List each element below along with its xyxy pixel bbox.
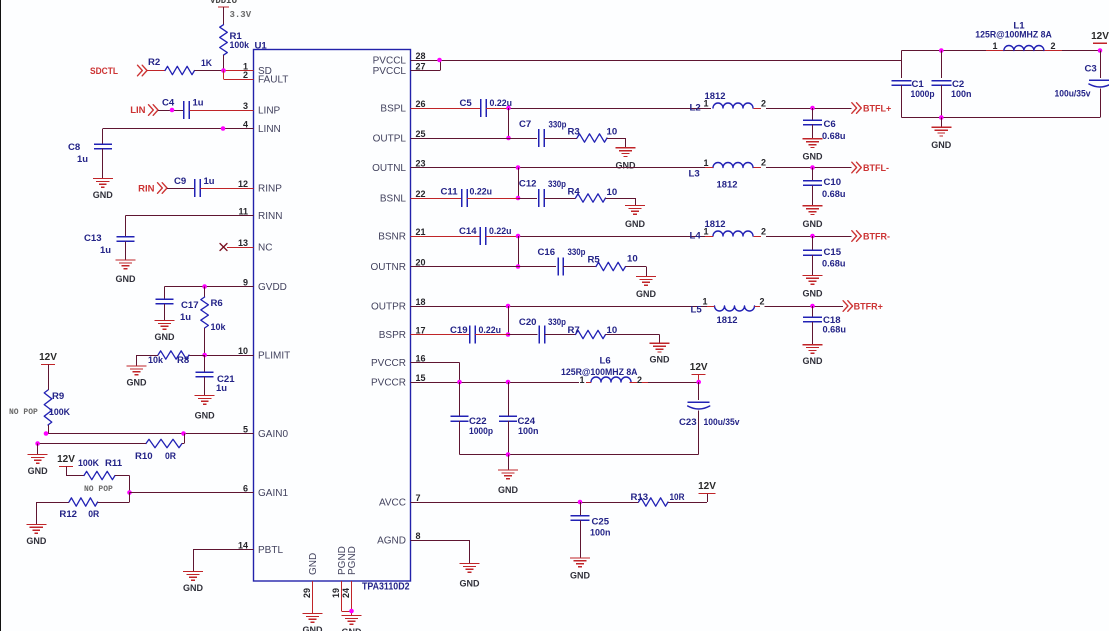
svg-text:GND: GND bbox=[803, 356, 824, 366]
svg-text:C13: C13 bbox=[84, 233, 102, 244]
wire bootstrap bbox=[518, 168, 520, 199]
ground bbox=[93, 179, 114, 201]
wire pin 9 (GVDD) to C17 bbox=[165, 286, 254, 288]
svg-text:1u: 1u bbox=[180, 312, 191, 323]
svg-text:C5: C5 bbox=[460, 98, 473, 109]
junction R10 GAIN0 bbox=[181, 431, 186, 436]
svg-text:L6: L6 bbox=[600, 356, 611, 367]
svg-text:7: 7 bbox=[416, 493, 421, 503]
capacitor C4 1u bbox=[162, 98, 204, 120]
resistor R13 10R bbox=[631, 492, 685, 506]
junction LINN bbox=[221, 126, 226, 131]
wire pin 18 to L5 bbox=[411, 306, 713, 308]
svg-text:R9: R9 bbox=[52, 391, 64, 402]
capacitor C19 0.22u bbox=[450, 325, 501, 344]
svg-text:10k: 10k bbox=[148, 355, 164, 366]
junction PVCCL bbox=[437, 58, 442, 63]
capacitor C2 100n bbox=[931, 51, 971, 118]
ground bbox=[26, 524, 47, 546]
junction BSPL bbox=[506, 106, 511, 111]
wire C25 to ground bbox=[580, 520, 582, 558]
wire pin 23 to L3 bbox=[411, 167, 712, 169]
U1 pin 12 (RINP) bbox=[231, 179, 283, 195]
svg-text:GND: GND bbox=[570, 570, 591, 580]
wire pin 20 to junction bbox=[411, 266, 519, 268]
wire BTFR+ to C18 bbox=[812, 306, 814, 317]
ground bbox=[155, 321, 176, 343]
svg-text:GND: GND bbox=[803, 219, 824, 229]
wire pin 29 to ground bbox=[312, 581, 314, 614]
wire C21 to ground bbox=[204, 377, 206, 396]
wire C5 dot to L2 bbox=[509, 108, 712, 110]
svg-text:12V: 12V bbox=[690, 362, 708, 373]
wire pin 17 to C19 bbox=[411, 334, 471, 336]
capacitor C21 1u bbox=[196, 372, 236, 394]
svg-text:100n: 100n bbox=[951, 89, 972, 100]
inductor L6 125R@100MHZ 8A bbox=[561, 356, 648, 386]
resistor R9 100K bbox=[9, 390, 70, 425]
wire C17 to ground bbox=[164, 304, 166, 321]
power 12V bbox=[1091, 31, 1109, 53]
svg-text:1u: 1u bbox=[100, 245, 111, 256]
svg-text:1u: 1u bbox=[77, 154, 88, 165]
junction SD node bbox=[221, 68, 226, 73]
svg-text:L2: L2 bbox=[690, 103, 701, 114]
svg-text:12V: 12V bbox=[1091, 31, 1109, 42]
svg-text:1: 1 bbox=[702, 297, 707, 307]
svg-text:1000p: 1000p bbox=[911, 89, 935, 100]
svg-text:R11: R11 bbox=[105, 458, 123, 469]
U1 pin 4 (LINN) bbox=[231, 120, 281, 136]
svg-text:C20: C20 bbox=[519, 317, 537, 328]
junction R10 ground node bbox=[35, 441, 40, 446]
wire R10 left to ground node bbox=[38, 443, 69, 445]
wire LINN down to C8 bbox=[102, 129, 104, 145]
svg-text:GND: GND bbox=[127, 378, 148, 388]
junction C2 top bbox=[939, 48, 944, 53]
svg-text:BTFR-: BTFR- bbox=[863, 232, 890, 242]
junction LIN bbox=[170, 108, 175, 113]
svg-text:3: 3 bbox=[243, 101, 248, 111]
junction GAIN1 bbox=[127, 490, 132, 495]
svg-text:330p: 330p bbox=[548, 317, 566, 328]
svg-text:AGND: AGND bbox=[377, 536, 406, 547]
wire pin 19 to ground bbox=[342, 581, 352, 612]
node RIN bbox=[138, 183, 167, 195]
svg-text:0.68u: 0.68u bbox=[822, 189, 846, 200]
svg-text:1u: 1u bbox=[204, 176, 215, 187]
ground bbox=[803, 206, 824, 229]
svg-text:GND: GND bbox=[498, 485, 519, 495]
svg-text:GND: GND bbox=[636, 289, 657, 299]
svg-text:1812: 1812 bbox=[717, 315, 738, 326]
capacitor C10 0.68u bbox=[803, 177, 846, 200]
wire BTFR- to C15 bbox=[812, 236, 814, 250]
junction BTFR+ bbox=[810, 304, 815, 309]
wire BTFL+ to C6 bbox=[812, 108, 814, 120]
wire ground node down bbox=[37, 444, 39, 455]
power 12V bbox=[698, 481, 716, 494]
svg-text:GND: GND bbox=[93, 190, 114, 200]
wire L3 to BTFL- bbox=[766, 167, 852, 169]
ground bbox=[342, 616, 363, 631]
svg-text:C12: C12 bbox=[519, 179, 537, 190]
node BTFL+ bbox=[852, 103, 891, 114]
wire C18 to ground bbox=[812, 322, 814, 345]
svg-text:26: 26 bbox=[416, 99, 426, 109]
svg-text:PVCCR: PVCCR bbox=[371, 378, 406, 389]
ground bbox=[460, 564, 481, 589]
svg-text:GND: GND bbox=[625, 219, 646, 229]
junction OUTPL bbox=[506, 136, 511, 141]
svg-text:10R: 10R bbox=[670, 492, 685, 503]
resistor R7 10 bbox=[568, 325, 618, 339]
resistor R11 100K bbox=[78, 458, 123, 494]
junction OUTNR bbox=[516, 264, 521, 269]
wire L6 to 12V bbox=[648, 382, 699, 384]
wire bootstrap bbox=[508, 306, 510, 335]
svg-text:C15: C15 bbox=[824, 247, 842, 258]
capacitor C20 330p bbox=[519, 317, 566, 344]
wire R1 to SD node bbox=[223, 55, 225, 70]
svg-text:1000p: 1000p bbox=[469, 426, 493, 437]
resistor R8 10k bbox=[148, 351, 190, 366]
junction OUTPR bbox=[506, 304, 511, 309]
svg-text:2: 2 bbox=[759, 297, 764, 307]
wire LIN to C4 bbox=[158, 110, 184, 112]
ground bbox=[303, 614, 324, 631]
svg-text:BSNR: BSNR bbox=[378, 232, 406, 243]
wire R3 to ground bbox=[607, 138, 626, 148]
capacitor C14 0.22u bbox=[459, 226, 512, 245]
wire junction to C12 bbox=[518, 198, 537, 200]
svg-text:GND: GND bbox=[460, 579, 481, 589]
svg-text:100u/35v: 100u/35v bbox=[1055, 89, 1092, 100]
svg-text:PLIMIT: PLIMIT bbox=[258, 351, 290, 362]
svg-text:BSNL: BSNL bbox=[380, 194, 407, 205]
resistor R3 10 bbox=[568, 127, 618, 143]
U1 pin 1 (SD) bbox=[231, 62, 272, 78]
svg-text:10k: 10k bbox=[211, 322, 227, 333]
svg-text:0.22u: 0.22u bbox=[470, 187, 493, 198]
ground bbox=[28, 455, 49, 477]
wire C15 to ground bbox=[812, 255, 814, 275]
svg-text:3.3V: 3.3V bbox=[230, 10, 252, 20]
wire C11 to junction bbox=[467, 198, 518, 200]
wire bootstrap L bbox=[508, 108, 510, 138]
svg-text:GND: GND bbox=[183, 583, 204, 593]
svg-text:C7: C7 bbox=[519, 119, 531, 130]
svg-text:AVCC: AVCC bbox=[379, 498, 406, 509]
junction BSNL bbox=[516, 196, 521, 201]
capacitor C23 100u/35v bbox=[679, 382, 740, 455]
junction PVCCR gnd bbox=[506, 452, 511, 457]
capacitor C8 1u bbox=[68, 142, 112, 165]
ground bbox=[803, 139, 824, 162]
capacitor C25 100n bbox=[571, 516, 611, 539]
wire R5 to ground bbox=[626, 267, 647, 277]
U1 pin 28 (PVCCL) bbox=[373, 51, 434, 67]
svg-text:125R@100MHZ 8A: 125R@100MHZ 8A bbox=[561, 367, 638, 377]
svg-text:OUTNL: OUTNL bbox=[372, 163, 406, 174]
svg-text:12V: 12V bbox=[39, 352, 57, 363]
capacitor C12 330p bbox=[519, 179, 566, 208]
inductor L2 1812 bbox=[690, 91, 767, 114]
wire GAIN1 to pin 6 bbox=[130, 492, 254, 494]
svg-text:19: 19 bbox=[331, 588, 341, 598]
svg-text:0.68u: 0.68u bbox=[823, 325, 847, 336]
svg-text:BTFR+: BTFR+ bbox=[854, 302, 883, 312]
svg-text:1u: 1u bbox=[216, 383, 227, 394]
svg-text:125R@100MHZ 8A: 125R@100MHZ 8A bbox=[975, 29, 1052, 39]
junction BTFL- bbox=[810, 165, 815, 170]
IC U1 TPA3110D2 body bbox=[254, 41, 411, 593]
ground bbox=[625, 206, 646, 230]
wire R13 to 12V bbox=[668, 494, 708, 503]
svg-text:GND: GND bbox=[650, 354, 671, 364]
svg-text:R4: R4 bbox=[568, 187, 581, 198]
svg-text:13: 13 bbox=[238, 238, 248, 248]
svg-text:C11: C11 bbox=[441, 187, 459, 198]
svg-text:0R: 0R bbox=[165, 451, 176, 462]
ground bbox=[127, 366, 148, 388]
junction bottom rail bbox=[939, 115, 944, 120]
svg-text:10: 10 bbox=[238, 346, 248, 356]
junction BTFL+ bbox=[810, 106, 815, 111]
inductor L1 125R@100MHZ 8A bbox=[975, 21, 1062, 52]
U1 pin 29 (GND) bbox=[302, 553, 319, 598]
svg-text:PVCCL: PVCCL bbox=[373, 66, 407, 77]
svg-text:R12: R12 bbox=[59, 509, 77, 520]
svg-text:C16: C16 bbox=[538, 247, 556, 258]
wire R12 to ground bbox=[36, 502, 69, 524]
U1 pin 26 (BSPL) bbox=[380, 99, 433, 115]
svg-text:C8: C8 bbox=[68, 142, 81, 153]
capacitor C7 330p bbox=[519, 119, 567, 147]
ground bbox=[183, 572, 204, 594]
wire pin 25 to junction bbox=[411, 138, 509, 140]
wire PVCCL bottom rail bbox=[902, 117, 1101, 119]
svg-text:0.68u: 0.68u bbox=[822, 259, 846, 270]
wire L4 to BTFR- bbox=[766, 236, 852, 238]
wire GVDD down to C17 bbox=[164, 287, 166, 300]
wire pin 7 (AVCC) bbox=[411, 502, 639, 504]
junction AVCC bbox=[578, 500, 583, 505]
svg-text:C17: C17 bbox=[181, 300, 199, 311]
ground bbox=[803, 345, 824, 367]
wire C20 to R7 bbox=[545, 334, 576, 336]
svg-text:LINP: LINP bbox=[258, 106, 281, 117]
svg-text:R10: R10 bbox=[135, 451, 153, 462]
wire C12 to R4 bbox=[544, 198, 576, 200]
svg-text:PVCCR: PVCCR bbox=[371, 358, 406, 369]
svg-text:330p: 330p bbox=[549, 120, 567, 131]
wire RIN to C9 bbox=[167, 188, 195, 190]
U1 pin 17 (BSPR) bbox=[379, 326, 434, 342]
wire R8 to ground bbox=[137, 355, 159, 366]
U1 pin 6 (GAIN1) bbox=[231, 484, 289, 500]
svg-text:100K: 100K bbox=[49, 407, 70, 418]
capacitor C24 100n bbox=[499, 382, 539, 455]
wire C10 to ground bbox=[812, 185, 814, 206]
svg-text:GAIN0: GAIN0 bbox=[258, 429, 288, 440]
wire C19 to junction bbox=[475, 334, 508, 336]
U1 pin 18 (OUTPR) bbox=[371, 297, 434, 313]
wire R10 left lead bbox=[69, 443, 146, 445]
ground bbox=[931, 127, 952, 150]
svg-text:10: 10 bbox=[607, 127, 618, 138]
junction PVCCR 12V bbox=[696, 380, 701, 385]
U1 pin 5 (GAIN0) bbox=[231, 425, 289, 441]
svg-text:R6: R6 bbox=[211, 298, 223, 309]
ground bbox=[616, 148, 637, 171]
svg-text:28: 28 bbox=[416, 51, 426, 61]
svg-text:2: 2 bbox=[1050, 41, 1055, 51]
svg-text:RINN: RINN bbox=[258, 211, 282, 222]
junction OUTNL bbox=[516, 165, 521, 170]
wire C14 dot to L4 bbox=[518, 236, 711, 238]
svg-text:1812: 1812 bbox=[717, 180, 738, 191]
svg-text:GND: GND bbox=[342, 627, 363, 631]
svg-text:2: 2 bbox=[761, 158, 766, 168]
wire PLIMIT to R8 bbox=[189, 355, 205, 357]
svg-text:2: 2 bbox=[243, 70, 248, 80]
U1 pin 2 (FAULT) bbox=[231, 70, 289, 86]
junction PVCCR C22 bbox=[457, 380, 462, 385]
U1 pin 9 (GVDD) bbox=[231, 278, 287, 294]
wire L2 to BTFL+ bbox=[766, 108, 852, 110]
junction GVDD bbox=[202, 284, 207, 289]
U1 pin 19 (PGND) bbox=[331, 546, 348, 598]
svg-text:1: 1 bbox=[579, 375, 584, 385]
wire C14 to dot bbox=[485, 236, 518, 238]
U1 pin 7 (AVCC) bbox=[379, 493, 434, 509]
svg-text:100u/35v: 100u/35v bbox=[704, 417, 741, 428]
svg-text:RIN: RIN bbox=[138, 184, 155, 195]
wire SD node to pin 2 (FAULT) bbox=[224, 71, 254, 80]
wire 12V to R11 bbox=[66, 467, 84, 476]
node SDCTL bbox=[90, 65, 147, 77]
svg-text:GND: GND bbox=[931, 140, 952, 150]
wire C4 to pin 3 bbox=[190, 110, 254, 112]
svg-text:BSPR: BSPR bbox=[379, 330, 406, 341]
svg-text:C25: C25 bbox=[592, 517, 610, 528]
svg-text:GND: GND bbox=[803, 151, 824, 161]
wire R11 to GAIN1 bbox=[115, 476, 130, 493]
svg-text:15: 15 bbox=[416, 373, 426, 383]
junction R9 GAIN0 bbox=[44, 431, 49, 436]
wire BTFL- to C10 bbox=[812, 168, 814, 181]
wire pin 14 (PBTL) to ground bbox=[193, 550, 254, 572]
inductor L3 1812 bbox=[689, 158, 767, 191]
junction BSNR bbox=[516, 234, 521, 239]
junction PVCCR C24 bbox=[506, 380, 511, 385]
wire SDCTL to R2 bbox=[147, 70, 165, 72]
svg-text:24: 24 bbox=[341, 588, 351, 598]
svg-text:GND: GND bbox=[116, 274, 137, 284]
capacitor C1 1000p bbox=[892, 60, 935, 118]
wire R7 to ground bbox=[606, 335, 660, 344]
svg-text:C14: C14 bbox=[459, 226, 477, 237]
svg-text:1u: 1u bbox=[193, 98, 204, 109]
wire pin 24 to ground bbox=[351, 581, 353, 616]
wire VDDIO to R1 bbox=[223, 7, 225, 25]
svg-text:R5: R5 bbox=[588, 255, 601, 266]
power 12V bbox=[690, 362, 708, 382]
junction PLIMIT bbox=[202, 353, 207, 358]
wire R4 to ground bbox=[606, 198, 636, 206]
capacitor C16 330p bbox=[538, 247, 586, 276]
U1 pin 27 (PVCCL) bbox=[373, 62, 434, 78]
svg-text:29: 29 bbox=[302, 588, 312, 598]
power 12V bbox=[57, 454, 75, 467]
svg-text:GND: GND bbox=[28, 466, 49, 476]
svg-text:R7: R7 bbox=[568, 325, 580, 336]
svg-text:0.22u: 0.22u bbox=[489, 226, 512, 237]
power VDDIO 3.3V bbox=[210, 0, 252, 20]
U1 pin 10 (PLIMIT) bbox=[231, 346, 291, 362]
U1 pin 21 (BSNR) bbox=[378, 227, 433, 243]
svg-text:C6: C6 bbox=[824, 119, 836, 130]
svg-text:LIN: LIN bbox=[130, 105, 145, 116]
svg-text:GND: GND bbox=[155, 332, 176, 342]
svg-text:1K: 1K bbox=[201, 58, 212, 69]
ground bbox=[116, 260, 137, 284]
svg-text:SDCTL: SDCTL bbox=[90, 66, 118, 77]
wire pin 8 (AGND) to ground bbox=[411, 540, 470, 564]
svg-text:NO POP: NO POP bbox=[84, 485, 113, 494]
resistor R2 1K bbox=[148, 57, 212, 75]
wire PLIMIT to C21 bbox=[204, 355, 206, 372]
U1 pin 8 (AGND) bbox=[377, 531, 433, 547]
svg-text:18: 18 bbox=[416, 297, 426, 307]
junction BTFR- bbox=[810, 234, 815, 239]
wire AVCC to C25 bbox=[580, 502, 582, 516]
svg-text:100K: 100K bbox=[78, 458, 99, 469]
wire C13 to ground bbox=[125, 241, 127, 260]
svg-text:PGND: PGND bbox=[347, 546, 358, 575]
svg-text:0.68u: 0.68u bbox=[822, 131, 846, 142]
svg-text:C10: C10 bbox=[824, 177, 842, 188]
wire R6 to PLIMIT bbox=[204, 328, 206, 355]
wire pin 27 to PVCCL rail bbox=[411, 60, 441, 71]
node LIN bbox=[130, 105, 158, 116]
resistor R4 10 bbox=[568, 187, 618, 203]
U1 pin 14 (PBTL) bbox=[231, 541, 284, 557]
capacitor C17 1u bbox=[156, 299, 199, 323]
wire pin 26 to C5 bbox=[411, 108, 482, 110]
svg-text:1: 1 bbox=[703, 158, 708, 168]
wire C16 to R5 bbox=[563, 266, 596, 268]
wire R10 to GAIN0 bbox=[182, 434, 185, 444]
wire 12V to R9 bbox=[48, 365, 50, 391]
ground bbox=[498, 470, 519, 495]
svg-text:FAULT: FAULT bbox=[258, 75, 288, 86]
power 12V bbox=[39, 352, 57, 365]
wire C9 to pin 12 bbox=[200, 188, 254, 190]
svg-text:GND: GND bbox=[308, 553, 319, 575]
svg-text:GND: GND bbox=[26, 536, 47, 546]
wire rail to ground bbox=[941, 118, 943, 128]
svg-text:BSPL: BSPL bbox=[380, 104, 406, 115]
wire L5 to BTFR+ bbox=[765, 306, 844, 308]
svg-text:C23: C23 bbox=[679, 417, 697, 428]
svg-text:25: 25 bbox=[416, 129, 426, 139]
svg-text:GND: GND bbox=[195, 411, 216, 421]
wire pin 16 (PVCCR) bbox=[411, 363, 460, 383]
ground bbox=[570, 558, 591, 581]
svg-text:L5: L5 bbox=[691, 305, 703, 316]
